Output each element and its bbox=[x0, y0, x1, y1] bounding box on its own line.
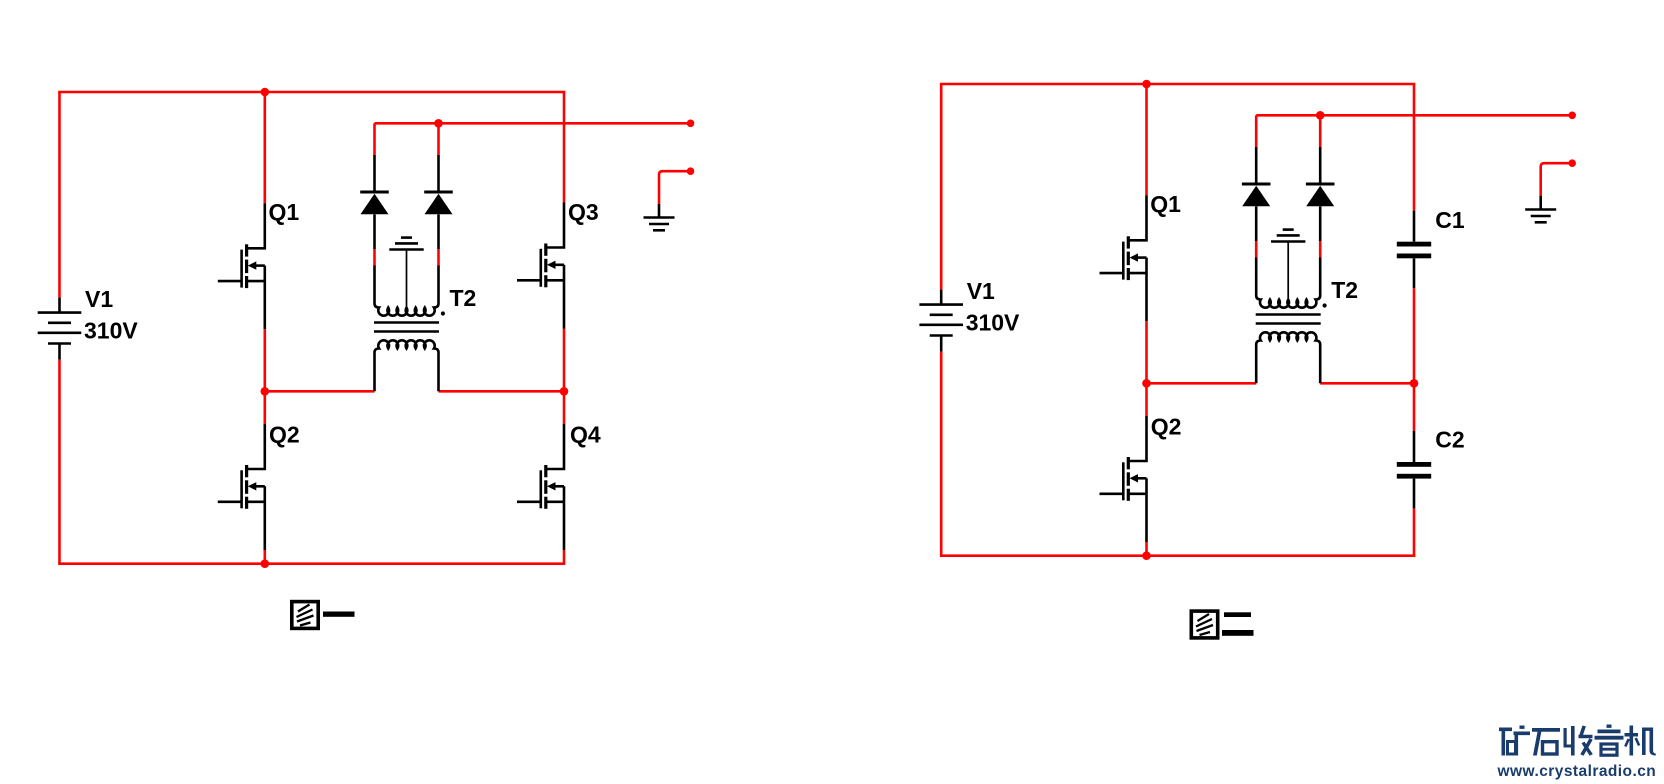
diode D2 bbox=[1306, 147, 1335, 241]
transformer T2 center tap wire bbox=[1287, 242, 1289, 299]
svg-text:310V: 310V bbox=[966, 309, 1020, 335]
wire secondary output bbox=[375, 122, 691, 125]
transformer T2 primary winding bbox=[375, 266, 439, 316]
wire mid rail left segment bbox=[265, 390, 375, 393]
wire D1-transformer nub bbox=[1255, 241, 1258, 258]
wire diode D2 top nub bbox=[1319, 115, 1322, 147]
caption 图二 (Figure 2) bbox=[1191, 611, 1253, 638]
wire Q3 source to mid rail bbox=[563, 329, 566, 392]
wire Q1 drain leg bbox=[263, 92, 266, 203]
wire Q1 drain leg bbox=[1145, 84, 1148, 195]
wire mid rail right segment bbox=[1320, 382, 1414, 385]
terminal output + bbox=[1568, 112, 1576, 120]
wire left rail upper (to battery +) bbox=[58, 92, 61, 298]
diode D1 bbox=[360, 155, 389, 249]
wire bottom rail bbox=[940, 554, 1415, 557]
junction output wire / D2 bbox=[1316, 111, 1325, 120]
wire left rail lower (from battery -) bbox=[58, 360, 61, 564]
transistor Q1 bbox=[1100, 195, 1147, 321]
caption 图一 (Figure 1) bbox=[292, 602, 355, 629]
junction top rail / Q1 leg bbox=[261, 88, 270, 97]
wire left rail lower (from battery -) bbox=[940, 352, 943, 556]
junction bottom rail / Q2 leg bbox=[1142, 551, 1151, 560]
wire Q1 source to mid rail bbox=[1145, 321, 1148, 383]
wire C1 bottom to mid rail bbox=[1413, 288, 1416, 383]
junction mid rail / right leg bbox=[560, 387, 569, 396]
svg-text:Q2: Q2 bbox=[1151, 414, 1182, 440]
transistor Q3 bbox=[517, 203, 564, 329]
watermark logo 矿石收音机 (stylised) bbox=[1499, 725, 1656, 756]
svg-text:T2: T2 bbox=[1331, 277, 1358, 303]
capacitor C2 bbox=[1397, 431, 1431, 509]
wire D2-transformer nub bbox=[1319, 241, 1322, 258]
wire diode D1 top nub bbox=[373, 123, 376, 155]
wire diode D2 top nub bbox=[437, 123, 440, 155]
transformer T2 phase dot bbox=[1323, 303, 1327, 307]
svg-text:C2: C2 bbox=[1435, 426, 1464, 452]
svg-text:Q1: Q1 bbox=[1150, 191, 1181, 217]
wire diode D1 top nub bbox=[1255, 115, 1258, 147]
svg-text:V1: V1 bbox=[967, 278, 995, 304]
svg-text:V1: V1 bbox=[85, 286, 113, 312]
transistor Q4 bbox=[517, 424, 564, 550]
junction top rail / Q1 leg bbox=[1142, 80, 1151, 89]
ground (transformer center tap) bbox=[389, 238, 423, 250]
svg-text:T2: T2 bbox=[450, 285, 477, 311]
wire top rail circuit 2 bbox=[940, 83, 1415, 86]
transformer T2 phase dot bbox=[441, 311, 445, 315]
transformer T2 secondary winding bbox=[375, 340, 439, 391]
svg-text:Q3: Q3 bbox=[568, 199, 599, 225]
ground (output return) bbox=[1525, 196, 1556, 222]
transformer T2 secondary winding bbox=[1256, 332, 1320, 383]
wire Q1 source to mid rail bbox=[263, 329, 266, 391]
wire Q4 drain leg bbox=[563, 391, 566, 424]
ground (output return) bbox=[644, 204, 675, 230]
capacitor C1 bbox=[1397, 211, 1431, 289]
diode D2 bbox=[424, 155, 453, 249]
transistor Q2 bbox=[1100, 416, 1147, 542]
svg-text:Q1: Q1 bbox=[269, 199, 300, 225]
svg-text:Q4: Q4 bbox=[570, 422, 601, 448]
wire bottom rail bbox=[58, 562, 565, 565]
diode D1 bbox=[1242, 147, 1271, 241]
junction bottom rail / Q2 leg bbox=[261, 559, 270, 568]
terminal output ground bbox=[1568, 159, 1576, 167]
terminal output ground bbox=[687, 167, 695, 175]
battery V1 bbox=[38, 298, 82, 360]
wire Q2 drain leg bbox=[1145, 383, 1148, 416]
junction mid rail / Q leg bbox=[1142, 379, 1151, 388]
transformer T2 center tap wire bbox=[406, 250, 408, 307]
junction mid rail / right leg bbox=[1410, 379, 1419, 388]
wire top rail circuit 1 bbox=[58, 91, 565, 94]
ground (transformer center tap) bbox=[1271, 230, 1305, 242]
junction mid rail / Q leg bbox=[261, 387, 270, 396]
wire Q2 drain leg bbox=[263, 391, 266, 424]
transformer T2 core bbox=[374, 321, 439, 323]
wire output ground stub bbox=[659, 171, 691, 204]
wire Q2 source to bottom rail bbox=[263, 550, 266, 564]
svg-text:310V: 310V bbox=[84, 317, 138, 343]
wire Q2 source to bottom rail bbox=[1145, 542, 1148, 556]
wire Q4 source to bottom rail bbox=[563, 550, 566, 564]
wire output ground stub bbox=[1541, 163, 1573, 196]
svg-text:C1: C1 bbox=[1435, 207, 1465, 233]
wire mid rail right segment bbox=[439, 390, 565, 393]
wire left rail upper (to battery +) bbox=[940, 84, 943, 290]
wire secondary output bbox=[1256, 114, 1572, 117]
wire C2 top leg bbox=[1413, 383, 1416, 431]
wire Q3 drain leg bbox=[563, 92, 566, 203]
transformer T2 core bbox=[1256, 313, 1321, 315]
transistor Q2 bbox=[218, 424, 265, 550]
transistor Q1 bbox=[218, 203, 265, 329]
wire C2 bottom to bottom rail bbox=[1413, 509, 1416, 556]
wire D2-transformer nub bbox=[437, 249, 440, 266]
wire mid rail left segment bbox=[1147, 382, 1257, 385]
terminal output + bbox=[687, 120, 695, 128]
svg-text:www.crystalradio.cn: www.crystalradio.cn bbox=[1497, 763, 1657, 780]
svg-text:Q2: Q2 bbox=[269, 422, 300, 448]
junction output wire / D2 bbox=[434, 119, 443, 128]
wire C1 top leg bbox=[1413, 84, 1416, 211]
transformer T2 primary winding bbox=[1256, 258, 1320, 308]
wire D1-transformer nub bbox=[373, 249, 376, 266]
battery V1 bbox=[919, 290, 963, 352]
